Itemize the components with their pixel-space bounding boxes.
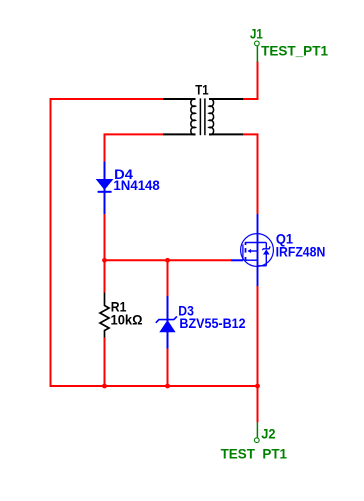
wire left vertical + top horizontal to T1 primary top [51,99,164,387]
junction node A (D4/R1/gate) [102,258,107,263]
wire D3 anode to bottom rail [167,349,169,388]
label Q1 [276,230,293,246]
wire R1 bottom to bottom rail [104,338,106,388]
junction source bottom rail [255,384,260,389]
wire T1 secondary top to J1 [243,62,258,100]
wire D3 top branch [167,260,169,296]
resistor R1 [100,293,109,338]
value IRFZ48N [276,243,326,259]
wire T1 primary bottom to D4 branch [105,134,164,161]
transformer T1 [163,98,243,135]
wire node A to R1 top [104,260,106,292]
label R1 [111,298,127,314]
net name TEST_PT1 [261,43,328,59]
wire D4 cathode down to node A [104,214,106,261]
svg-text:10kΩ: 10kΩ [111,312,143,328]
port J2 [254,422,259,442]
svg-text:IRFZ48N: IRFZ48N [276,243,326,259]
label J1 [250,26,263,42]
label D3 [178,302,194,318]
svg-text:TEST PT1: TEST PT1 [221,446,288,462]
label J2 [261,426,275,442]
junction D3 bottom rail [165,384,170,389]
junction D3 top [165,258,170,263]
svg-text:TEST_PT1: TEST_PT1 [261,43,328,59]
MOSFET Q1 [231,214,273,286]
svg-text:1N4148: 1N4148 [113,177,160,193]
zener diode D3 [156,296,177,349]
wire Q1 source down to J2 [257,286,259,422]
diode D4 [96,162,114,215]
svg-text:J1: J1 [250,26,263,42]
label D4 [114,166,133,182]
label T1 [195,82,209,98]
svg-text:BZV55-B12: BZV55-B12 [179,315,245,331]
net name TEST PT1 [221,446,288,462]
value 1N4148 [113,177,160,193]
wire T1 secondary bottom to Q1 drain [243,134,258,214]
wire gate horizontal node A to Q1 gate [105,259,232,261]
value BZV55-B12 [179,315,245,331]
wire bottom rail [51,385,258,387]
svg-text:T1: T1 [195,82,209,98]
port J1 [255,41,260,62]
svg-text:J2: J2 [261,426,275,442]
value 10kΩ [111,312,143,328]
junction R1 bottom rail [102,384,107,389]
